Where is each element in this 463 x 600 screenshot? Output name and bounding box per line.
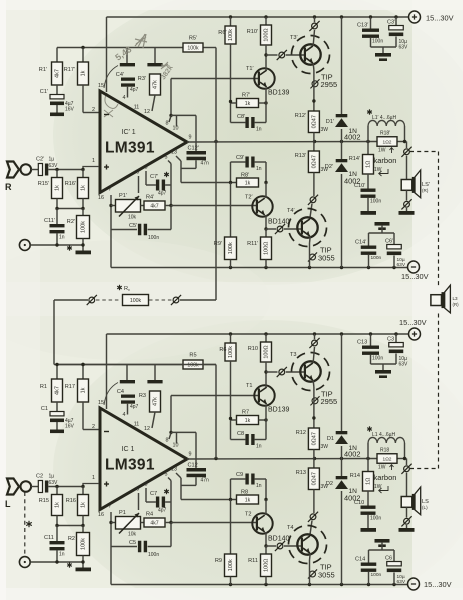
input terminal circle bbox=[21, 481, 32, 492]
svg-text:C6′: C6′ bbox=[385, 239, 393, 245]
wire pin 5 down bbox=[168, 478, 171, 481]
svg-text:D1: D1 bbox=[327, 436, 334, 442]
capacitor C3 bbox=[395, 334, 397, 343]
svg-text:1k: 1k bbox=[245, 101, 251, 107]
ground bbox=[361, 211, 377, 215]
svg-text:R: R bbox=[5, 182, 12, 192]
wire pin 13 to R8 node bbox=[176, 156, 181, 161]
svg-text:4: 4 bbox=[123, 412, 126, 418]
svg-text:1µ: 1µ bbox=[49, 474, 55, 480]
diode D2 1N4002 bbox=[341, 459, 343, 477]
resistor Rx bbox=[119, 285, 121, 290]
wire T4 collector bbox=[310, 521, 312, 537]
svg-text:R18: R18 bbox=[380, 448, 389, 454]
resistor R12&#8242; bbox=[308, 111, 319, 133]
wire R15/R16 bottoms bbox=[56, 516, 58, 526]
resistor R9&#8242; bbox=[230, 183, 232, 238]
svg-text:1k: 1k bbox=[245, 497, 251, 503]
svg-text:R11: R11 bbox=[248, 558, 258, 564]
pin 6 stub bbox=[138, 176, 140, 193]
pin 1 plus mark bbox=[104, 483, 109, 485]
svg-text:C4′: C4′ bbox=[116, 72, 124, 78]
svg-text:2: 2 bbox=[92, 424, 95, 430]
svg-text:1n: 1n bbox=[256, 483, 262, 489]
svg-text:100k: 100k bbox=[81, 221, 87, 233]
svg-text:12: 12 bbox=[144, 426, 150, 432]
svg-text:D1′: D1′ bbox=[326, 119, 334, 125]
resistor R18 bbox=[377, 454, 397, 464]
svg-text:T4′: T4′ bbox=[287, 208, 295, 214]
diode D2&#8242; 1N4002 bbox=[341, 142, 343, 160]
resistor R5&#8242; bbox=[183, 43, 203, 52]
input terminal circle bbox=[21, 164, 32, 175]
svg-text:1: 1 bbox=[92, 158, 95, 164]
wire decoupling join bbox=[371, 363, 397, 365]
svg-text:7: 7 bbox=[109, 187, 112, 193]
svg-text:P1′: P1′ bbox=[119, 193, 127, 199]
ground bbox=[399, 211, 415, 215]
resistor R10&#8242; bbox=[265, 17, 267, 25]
svg-text:BD139: BD139 bbox=[268, 90, 290, 97]
capacitor C8&#8242; bbox=[230, 103, 232, 123]
wire dashed to Rx bbox=[96, 299, 120, 301]
svg-text:100n: 100n bbox=[372, 39, 383, 45]
svg-text:15: 15 bbox=[98, 400, 104, 406]
svg-text:BD140: BD140 bbox=[268, 536, 290, 543]
wire negative decoupling join bbox=[381, 543, 383, 550]
svg-text:100k: 100k bbox=[81, 538, 87, 550]
wire T4 emitter bbox=[309, 554, 312, 561]
svg-text:R5′: R5′ bbox=[189, 36, 197, 42]
pin 6 stub bbox=[138, 493, 140, 510]
svg-text:BD140: BD140 bbox=[268, 219, 290, 226]
wire dashed bridge bottom bbox=[438, 314, 440, 469]
svg-text:4p7: 4p7 bbox=[158, 191, 167, 197]
wire speaker to ground bbox=[406, 507, 408, 517]
capacitor C14&#8242; bbox=[368, 233, 370, 246]
wire pin15 bypass curve bbox=[104, 66, 118, 89]
svg-text:9: 9 bbox=[189, 135, 192, 141]
svg-text:C9: C9 bbox=[236, 472, 243, 478]
wire feed R5&#8242; node bbox=[57, 47, 183, 49]
resistor R10 bbox=[265, 334, 267, 342]
wire T1 collector bbox=[265, 372, 267, 388]
resistor R15 bbox=[56, 487, 58, 495]
wire mid link right bbox=[180, 299, 216, 301]
wire pin 13 to R8 node bbox=[176, 473, 181, 478]
svg-text:15...30V: 15...30V bbox=[424, 580, 452, 589]
wire pin7/16 down bbox=[110, 512, 112, 585]
capacitor C2 bbox=[38, 481, 42, 493]
svg-text:R18′: R18′ bbox=[380, 131, 390, 137]
pin 2 minus mark bbox=[104, 431, 109, 433]
svg-text:LM391: LM391 bbox=[105, 457, 155, 474]
ground bbox=[375, 222, 390, 226]
wire input bbox=[31, 169, 38, 171]
wire T3 emitter bbox=[312, 381, 315, 388]
svg-text:1Ω2: 1Ω2 bbox=[383, 456, 392, 462]
svg-text:L1′ 4...6µH: L1′ 4...6µH bbox=[372, 115, 396, 121]
svg-text:100n: 100n bbox=[371, 572, 382, 578]
svg-text:R16: R16 bbox=[66, 498, 76, 504]
resistor R11 bbox=[265, 546, 267, 554]
svg-text:15...30V: 15...30V bbox=[426, 14, 454, 23]
wire bottom feed bbox=[54, 364, 216, 366]
resistor R6&#8242; bbox=[230, 17, 232, 26]
svg-text:R9: R9 bbox=[215, 558, 222, 564]
svg-text:12: 12 bbox=[144, 109, 150, 115]
ground bbox=[76, 251, 92, 255]
svg-text:100n: 100n bbox=[148, 552, 159, 558]
svg-text:R15′: R15′ bbox=[38, 181, 49, 187]
svg-text:47n: 47n bbox=[201, 161, 210, 167]
svg-text:C14: C14 bbox=[355, 557, 365, 563]
svg-text:(R): (R) bbox=[453, 302, 460, 307]
svg-text:LM391: LM391 bbox=[105, 140, 155, 157]
ground bbox=[56, 422, 58, 430]
svg-text:5: 5 bbox=[165, 155, 168, 161]
wire long vertical node bbox=[215, 365, 217, 459]
svg-text:D2: D2 bbox=[326, 481, 333, 487]
svg-text:1k: 1k bbox=[81, 70, 87, 76]
svg-text:1k: 1k bbox=[55, 185, 61, 191]
wire negative decoupling join bbox=[381, 226, 383, 233]
svg-text:1n: 1n bbox=[256, 166, 262, 172]
svg-text:R4: R4 bbox=[146, 512, 153, 518]
svg-text:63V: 63V bbox=[399, 362, 409, 368]
svg-text:C8: C8 bbox=[237, 431, 244, 437]
svg-text:1k: 1k bbox=[81, 185, 87, 191]
wire to pin 1 bbox=[48, 486, 83, 488]
svg-text:C7′: C7′ bbox=[150, 174, 158, 180]
svg-text:T1′: T1′ bbox=[246, 66, 254, 72]
svg-text:100k: 100k bbox=[228, 346, 234, 358]
svg-text:R1: R1 bbox=[40, 384, 47, 390]
svg-text:R15: R15 bbox=[39, 498, 49, 504]
wire pin 5 down bbox=[168, 161, 171, 164]
svg-text:R6: R6 bbox=[219, 347, 226, 353]
svg-text:100Ω: 100Ω bbox=[264, 345, 270, 358]
svg-text:63V: 63V bbox=[397, 262, 406, 268]
wire negative supply rail bbox=[111, 584, 408, 586]
terminal -15-30V bbox=[408, 578, 420, 590]
wire pin15 bypass curve bbox=[104, 383, 118, 406]
svg-text:1Ω2: 1Ω2 bbox=[383, 139, 392, 145]
svg-text:3W: 3W bbox=[321, 127, 329, 133]
svg-text:C13: C13 bbox=[357, 340, 367, 346]
ground bbox=[375, 539, 390, 543]
transistor T3 TIP2955 bbox=[292, 353, 330, 391]
svg-text:R7: R7 bbox=[242, 410, 249, 416]
capacitor C10 bbox=[367, 491, 369, 506]
capacitor C5 bbox=[111, 546, 137, 548]
svg-text:1W: 1W bbox=[378, 465, 386, 471]
wire T3 base bbox=[266, 371, 278, 373]
svg-text:R5: R5 bbox=[189, 353, 196, 359]
svg-text:(L): (L) bbox=[422, 505, 428, 510]
svg-text:0Ω47: 0Ω47 bbox=[312, 472, 318, 485]
svg-text:4002: 4002 bbox=[344, 450, 360, 459]
transistor T3&#8242; TIP2955 bbox=[292, 36, 330, 74]
svg-text:2: 2 bbox=[92, 107, 95, 113]
svg-text:R4′: R4′ bbox=[146, 195, 154, 201]
wire feed R5 node bbox=[57, 364, 183, 366]
svg-text:1k: 1k bbox=[245, 180, 251, 186]
svg-text:4k7: 4k7 bbox=[55, 386, 61, 395]
resistor R7 bbox=[237, 416, 259, 425]
ground bbox=[375, 370, 391, 374]
svg-text:16V: 16V bbox=[65, 107, 75, 113]
svg-text:R13: R13 bbox=[296, 470, 306, 476]
capacitor C10&#8242; bbox=[367, 174, 369, 189]
resistor R8&#8242; bbox=[237, 178, 259, 187]
capacitor C6 bbox=[393, 550, 395, 562]
svg-text:IC′ 1: IC′ 1 bbox=[122, 129, 136, 136]
wire T1 emitter bbox=[265, 88, 267, 104]
wire T4 emitter bbox=[309, 237, 312, 244]
svg-text:13: 13 bbox=[171, 150, 177, 156]
svg-text:4k7: 4k7 bbox=[150, 520, 158, 526]
resistor R8 bbox=[237, 495, 259, 504]
svg-text:L3: L3 bbox=[453, 296, 459, 301]
svg-text:100n: 100n bbox=[372, 356, 383, 362]
svg-text:10: 10 bbox=[173, 443, 179, 449]
svg-text:R6′: R6′ bbox=[218, 30, 226, 36]
svg-text:4p7: 4p7 bbox=[158, 508, 167, 514]
svg-text:1µ: 1µ bbox=[49, 157, 55, 163]
resistor R9 bbox=[230, 500, 232, 555]
ground bbox=[399, 528, 415, 532]
transistor T2 BD140 bbox=[252, 513, 272, 533]
svg-text:karbon: karbon bbox=[374, 473, 397, 482]
capacitor C11&#8242; bbox=[56, 209, 58, 225]
svg-text:C13′: C13′ bbox=[357, 23, 368, 29]
svg-text:C14′: C14′ bbox=[355, 240, 366, 246]
svg-text:3: 3 bbox=[145, 482, 148, 488]
svg-text:R13′: R13′ bbox=[295, 153, 306, 159]
input plug R bbox=[7, 162, 19, 178]
inductor L1&#8242; bbox=[369, 109, 371, 114]
svg-text:6: 6 bbox=[136, 170, 139, 176]
svg-text:BD139: BD139 bbox=[268, 407, 290, 414]
svg-text:C7: C7 bbox=[150, 491, 157, 497]
svg-text:47k: 47k bbox=[153, 80, 159, 89]
svg-text:1Ω: 1Ω bbox=[366, 478, 372, 485]
svg-text:R10′: R10′ bbox=[247, 29, 258, 35]
capacitor C5&#8242; bbox=[111, 229, 137, 231]
svg-text:R3′: R3′ bbox=[138, 76, 146, 82]
svg-text:R12′: R12′ bbox=[295, 113, 306, 119]
svg-text:4p7: 4p7 bbox=[130, 404, 139, 410]
potentiometer P1&#8242; bbox=[111, 205, 116, 207]
diode D1 1N4002 bbox=[341, 334, 343, 431]
svg-text:16: 16 bbox=[98, 512, 104, 518]
capacitor C9&#8242; bbox=[231, 161, 246, 163]
transistor T1 BD139 bbox=[254, 385, 274, 405]
terminal +15-30V upper bbox=[409, 11, 421, 23]
svg-text:R2: R2 bbox=[68, 536, 75, 542]
capacitor C2&#8242; bbox=[38, 164, 42, 176]
op-amp IC1 LM391 bbox=[100, 408, 187, 510]
svg-text:C12′: C12′ bbox=[188, 146, 199, 152]
wire T3 base bbox=[266, 54, 278, 56]
op-amp IC&#8242;1 LM391 bbox=[100, 91, 187, 193]
svg-text:C6: C6 bbox=[385, 556, 392, 562]
svg-text:T2: T2 bbox=[245, 512, 252, 518]
svg-text:T1: T1 bbox=[246, 383, 253, 389]
svg-text:1n: 1n bbox=[256, 444, 262, 450]
wire R15/R16 bottoms bbox=[56, 199, 58, 209]
pin 1 plus mark bbox=[104, 166, 109, 168]
svg-text:100Ω: 100Ω bbox=[264, 559, 270, 572]
svg-text:0Ω47: 0Ω47 bbox=[312, 115, 318, 128]
svg-text:R11′: R11′ bbox=[247, 241, 258, 247]
svg-text:C8′: C8′ bbox=[237, 114, 245, 120]
speaker LS bbox=[401, 497, 412, 508]
test point bbox=[173, 297, 179, 303]
svg-text:P1: P1 bbox=[119, 510, 126, 516]
svg-text:13: 13 bbox=[171, 467, 177, 473]
svg-text:15: 15 bbox=[98, 83, 104, 89]
wire input bbox=[31, 486, 38, 488]
wire ground link bbox=[30, 561, 83, 563]
svg-text:100Ω: 100Ω bbox=[264, 242, 270, 255]
svg-text:D2′: D2′ bbox=[325, 164, 333, 170]
svg-text:R10: R10 bbox=[248, 346, 258, 352]
svg-text:1k: 1k bbox=[245, 418, 251, 424]
svg-text:0Ω47: 0Ω47 bbox=[312, 432, 318, 445]
wire dashed from Rx bbox=[149, 299, 172, 301]
resistor R2&#8242; bbox=[82, 209, 84, 216]
test point bbox=[89, 297, 95, 303]
svg-text:15...30V: 15...30V bbox=[399, 318, 427, 327]
wire speaker to ground bbox=[406, 190, 408, 200]
svg-text:C5′: C5′ bbox=[129, 223, 137, 229]
svg-text:1n: 1n bbox=[256, 127, 262, 133]
transistor T2&#8242; BD140 bbox=[252, 196, 272, 216]
svg-text:R7′: R7′ bbox=[242, 93, 250, 99]
svg-text:100k: 100k bbox=[228, 242, 234, 254]
svg-text:1W: 1W bbox=[378, 148, 386, 154]
transistor T1&#8242; BD139 bbox=[254, 68, 274, 88]
svg-text:8: 8 bbox=[166, 121, 169, 127]
svg-text:47k: 47k bbox=[153, 397, 159, 406]
resistor R1 bbox=[56, 365, 58, 380]
svg-text:7: 7 bbox=[109, 504, 112, 510]
svg-text:C11: C11 bbox=[44, 535, 54, 541]
resistor R13&#8242; bbox=[313, 142, 315, 152]
ground terminal circle bbox=[19, 240, 30, 251]
wire T2 base bbox=[171, 205, 257, 207]
svg-text:R14′: R14′ bbox=[349, 156, 360, 162]
svg-text:1: 1 bbox=[92, 475, 95, 481]
svg-text:1n: 1n bbox=[59, 235, 65, 241]
ground bbox=[375, 53, 391, 57]
svg-text:0Ω47: 0Ω47 bbox=[312, 155, 318, 168]
resistor R14 bbox=[367, 459, 369, 472]
svg-text:11: 11 bbox=[134, 422, 140, 428]
resistor R17&#8242; bbox=[82, 48, 84, 63]
wire long vertical node bbox=[215, 48, 217, 301]
svg-text:4p7: 4p7 bbox=[130, 87, 139, 93]
svg-text:T2′: T2′ bbox=[245, 195, 253, 201]
resistor R3&#8242; bbox=[154, 48, 156, 64]
svg-text:C1′: C1′ bbox=[40, 89, 48, 95]
svg-text:R17: R17 bbox=[65, 384, 75, 390]
svg-text:4: 4 bbox=[123, 95, 126, 101]
wire pins 8,10 to T1 base bbox=[171, 395, 259, 397]
svg-text:C10′: C10′ bbox=[354, 183, 365, 189]
svg-text:C12: C12 bbox=[188, 463, 198, 469]
wire output rail bbox=[187, 141, 377, 144]
svg-text:R14: R14 bbox=[350, 473, 360, 479]
svg-text:100k: 100k bbox=[228, 29, 234, 41]
resistor R14&#8242; bbox=[367, 142, 369, 155]
svg-text:3: 3 bbox=[145, 165, 148, 171]
svg-text:T4: T4 bbox=[287, 525, 294, 531]
resistor R13 bbox=[313, 459, 315, 469]
pin 2 minus mark bbox=[104, 114, 109, 116]
svg-text:4k7: 4k7 bbox=[150, 203, 158, 209]
svg-text:C5: C5 bbox=[129, 540, 136, 546]
resistor R7&#8242; bbox=[237, 99, 259, 108]
svg-text:16V: 16V bbox=[65, 424, 75, 430]
svg-text:16: 16 bbox=[98, 195, 104, 201]
svg-text:63V: 63V bbox=[399, 45, 409, 51]
ground bbox=[76, 568, 92, 572]
terminal +15-30V lower bbox=[409, 328, 421, 340]
transistor T4 TIP3055 bbox=[289, 526, 327, 564]
svg-text:R12: R12 bbox=[296, 430, 306, 436]
wire T3 collector bbox=[313, 347, 314, 363]
wire pins 8,10 to T1 base bbox=[171, 78, 259, 80]
terminal -15-30V bbox=[408, 261, 420, 273]
resistor R2 bbox=[82, 526, 84, 533]
capacitor C8 bbox=[230, 420, 232, 440]
resistor R5 bbox=[183, 360, 203, 369]
resistor R17 bbox=[82, 365, 84, 380]
speaker LS&#8242; bbox=[401, 180, 412, 191]
svg-text:C9′: C9′ bbox=[236, 155, 244, 161]
svg-text:C3: C3 bbox=[387, 337, 394, 343]
svg-text:R8′: R8′ bbox=[241, 173, 249, 179]
wire output rail bbox=[187, 458, 377, 461]
svg-text:4002: 4002 bbox=[344, 133, 360, 142]
svg-text:100n: 100n bbox=[148, 235, 159, 241]
resistor R1&#8242; bbox=[56, 48, 58, 63]
resistor R4 bbox=[141, 522, 145, 524]
svg-text:1Ω: 1Ω bbox=[366, 161, 372, 168]
wire negative supply rail bbox=[111, 267, 408, 269]
svg-text:R1′: R1′ bbox=[39, 67, 47, 73]
svg-text:1k: 1k bbox=[81, 387, 87, 393]
speaker L3 bbox=[431, 295, 442, 306]
capacitor C6&#8242; bbox=[393, 233, 395, 245]
svg-text:15...30V: 15...30V bbox=[401, 272, 429, 281]
svg-text:10: 10 bbox=[173, 126, 179, 132]
capacitor C3&#8242; bbox=[395, 17, 397, 26]
svg-text:R2′: R2′ bbox=[67, 219, 75, 225]
capacitor C7&#8242; bbox=[145, 171, 147, 185]
svg-text:1n: 1n bbox=[59, 552, 65, 558]
svg-text:8: 8 bbox=[166, 438, 169, 444]
svg-text:2955: 2955 bbox=[321, 397, 338, 406]
svg-text:1k: 1k bbox=[55, 502, 61, 508]
resistor R16&#8242; bbox=[82, 170, 84, 178]
wire T2 collector bbox=[265, 183, 267, 199]
svg-text:R3: R3 bbox=[139, 393, 146, 399]
svg-text:100n: 100n bbox=[370, 516, 381, 522]
